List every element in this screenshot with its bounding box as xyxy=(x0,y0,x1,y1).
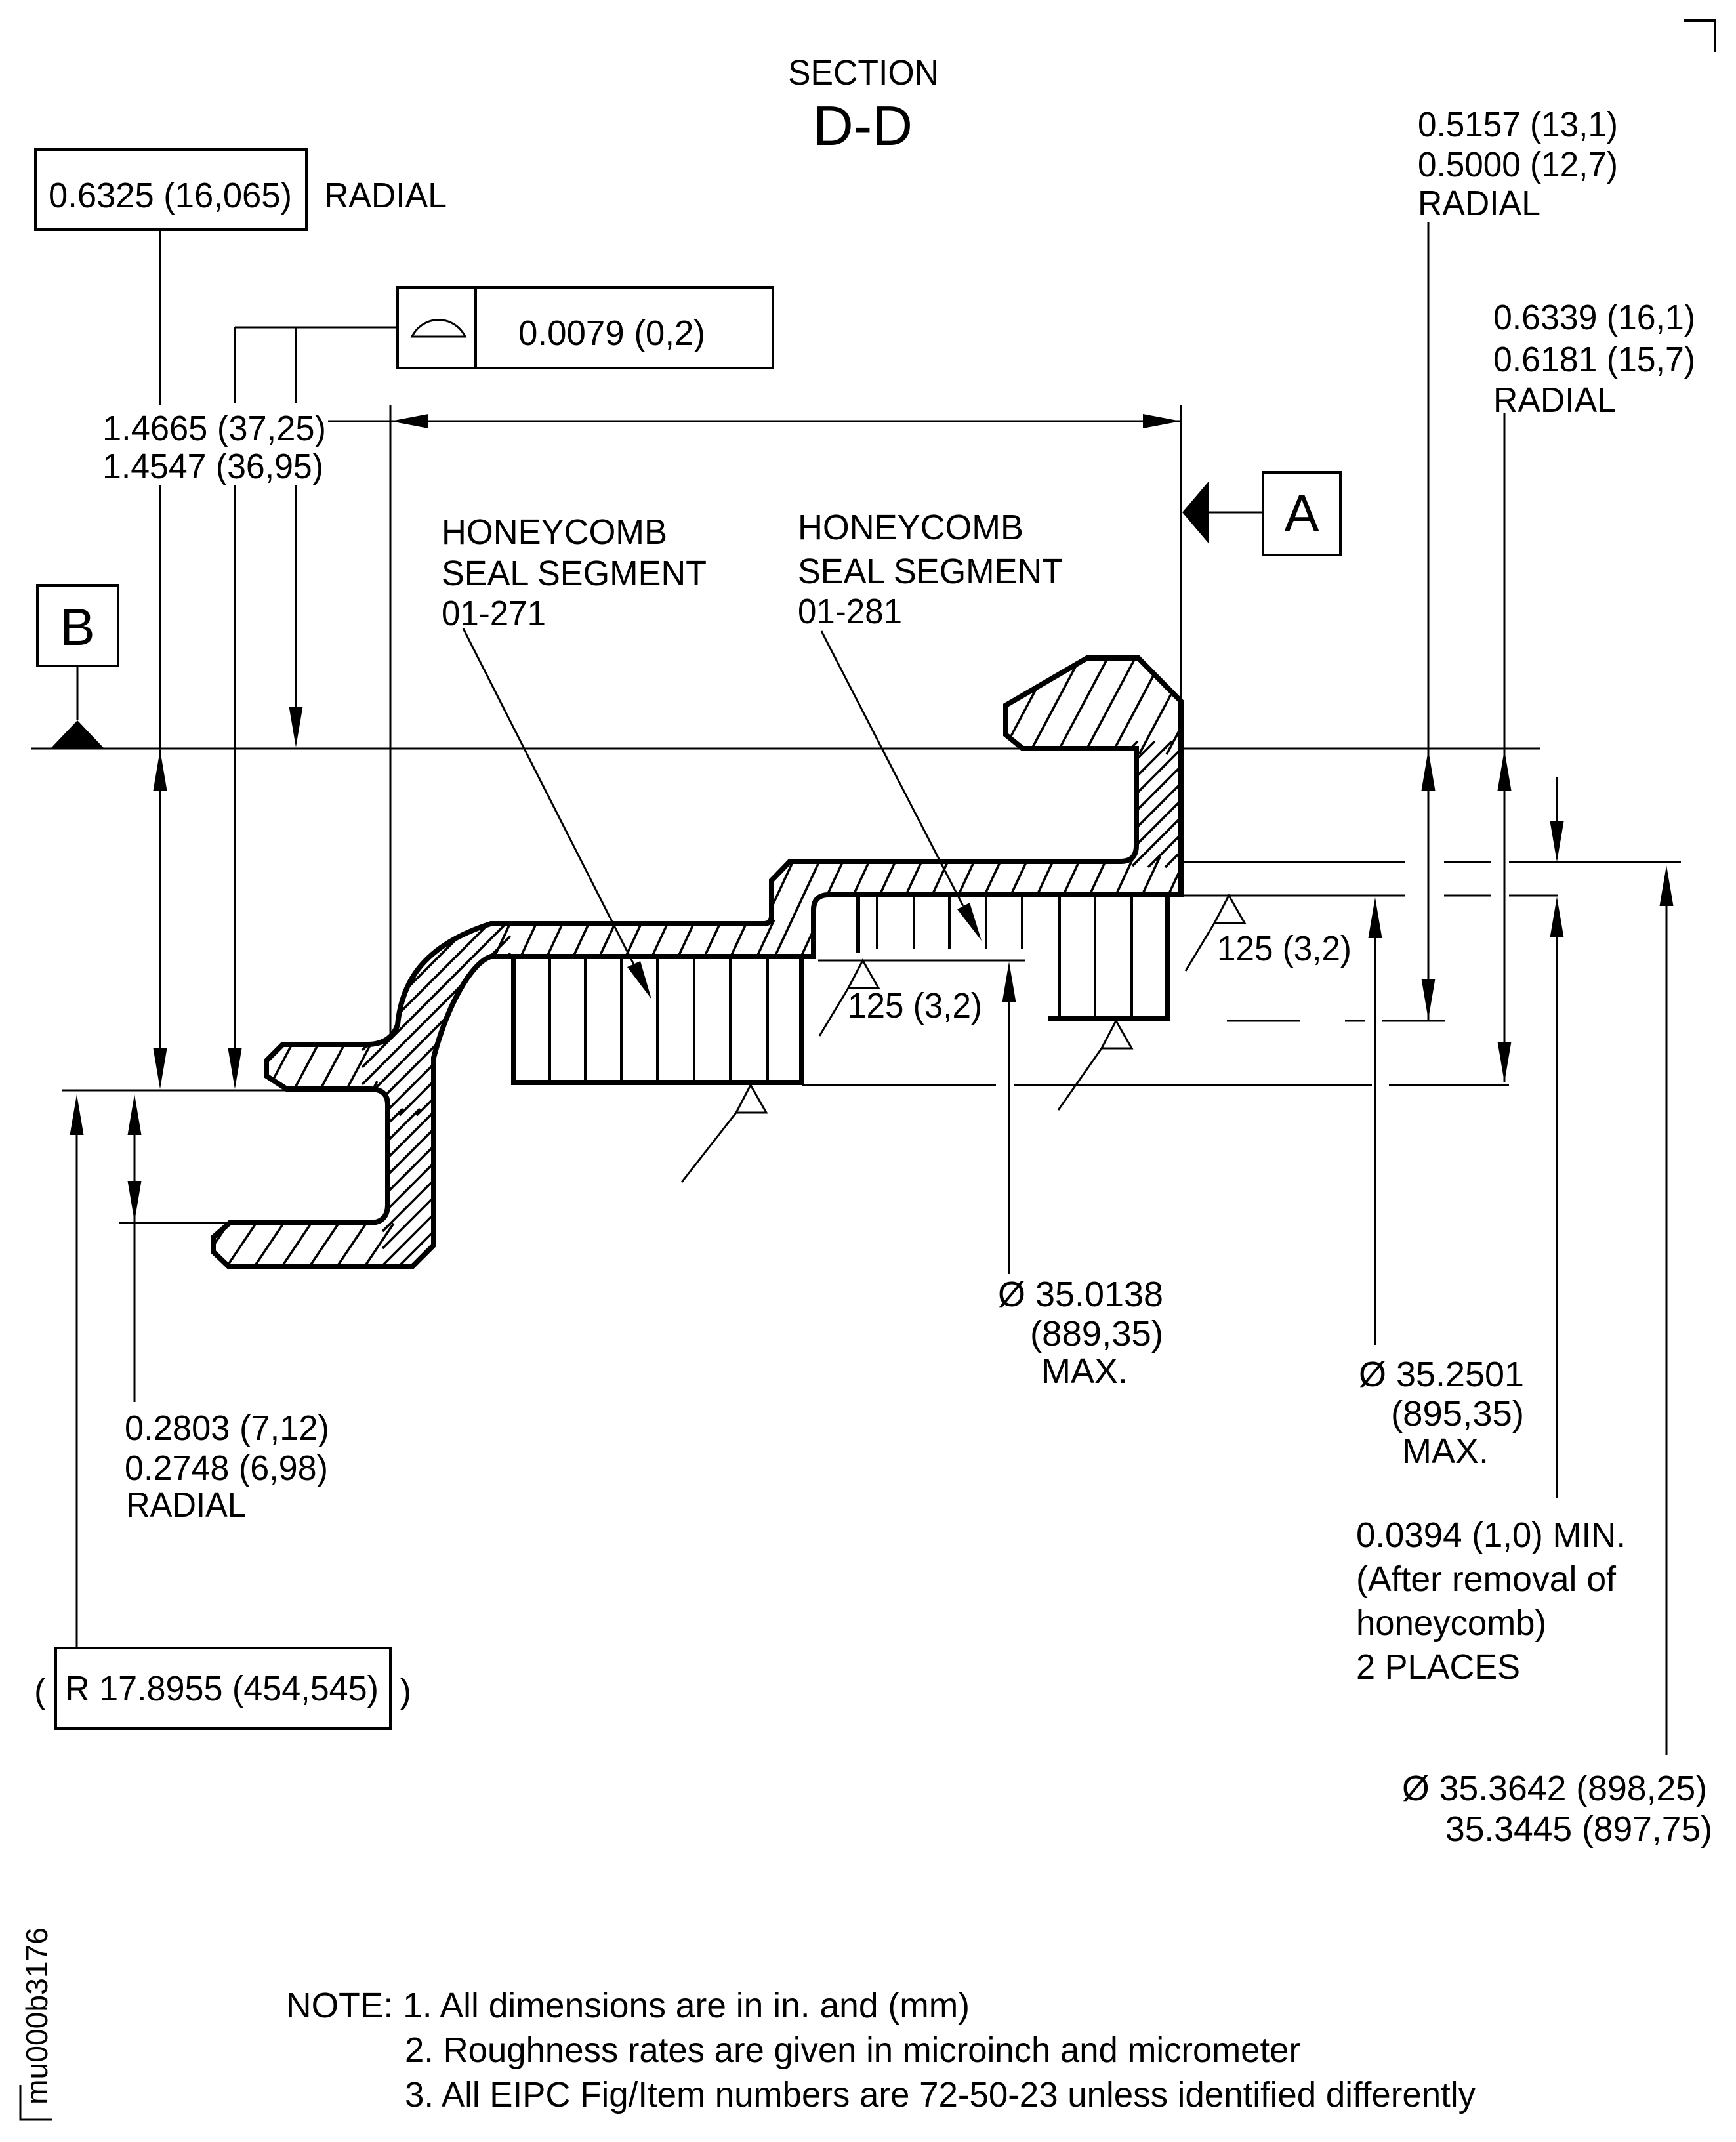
svg-text:0.2748 (6,98): 0.2748 (6,98) xyxy=(125,1449,328,1488)
svg-text:RADIAL: RADIAL xyxy=(1418,184,1540,223)
extension line: strip level-2 top surface xyxy=(1184,861,1405,863)
svg-text:Ø 35.3642 (898,25): Ø 35.3642 (898,25) xyxy=(1402,1769,1707,1808)
svg-text:Ø 35.0138: Ø 35.0138 xyxy=(998,1275,1163,1314)
feature control frame: profile 0.0079 (0,2) xyxy=(398,287,773,368)
svg-text:Ø 35.2501: Ø 35.2501 xyxy=(1359,1355,1524,1394)
dimension dia 35.2501 MAX xyxy=(1374,937,1376,1345)
svg-text:RADIAL: RADIAL xyxy=(324,176,447,215)
svg-text:1.4665 (37,25): 1.4665 (37,25) xyxy=(102,409,326,448)
honeycomb seal segment 01-281 shallow band xyxy=(818,896,1025,960)
svg-text:): ) xyxy=(400,1672,411,1711)
svg-text:0.6181 (15,7): 0.6181 (15,7) xyxy=(1493,340,1695,379)
extension line: part inner wall (left end of 1.4665 dim) xyxy=(390,405,392,1037)
extension line: part right edge (right end of 1.4665 dim) xyxy=(1180,405,1182,699)
roughness below honeycomb 01-271 xyxy=(736,1085,766,1113)
datum B symbol xyxy=(37,585,118,666)
svg-text:01-281: 01-281 xyxy=(798,592,902,631)
datum A symbol xyxy=(1263,472,1340,555)
svg-text:(: ( xyxy=(34,1672,46,1711)
leader 01-271 xyxy=(463,628,634,964)
corner trim mark top-right xyxy=(1684,20,1715,52)
svg-text:0.0079 (0,2): 0.0079 (0,2) xyxy=(518,314,705,353)
honeycomb seal segment 01-271 block xyxy=(511,957,804,1085)
extension line: deep honeycomb bottom surface xyxy=(1227,1020,1300,1022)
svg-text:(889,35): (889,35) xyxy=(1030,1314,1163,1353)
roughness 125 (3,2) on level-2 bottom extension xyxy=(1214,896,1245,923)
honeycomb seal segment 01-281 deep block xyxy=(1048,896,1170,1018)
svg-text:HONEYCOMB: HONEYCOMB xyxy=(442,512,667,552)
svg-text:NOTE: 1. All dimensions are in: NOTE: 1. All dimensions are in in. and (… xyxy=(286,1986,970,2025)
svg-text:RADIAL: RADIAL xyxy=(1493,381,1616,420)
svg-text:RADIAL: RADIAL xyxy=(126,1485,246,1525)
dimension 0.6325 RADIAL boxed xyxy=(35,150,306,230)
dimension 1.4665/1.4547 width line xyxy=(390,421,1181,422)
FCF leader xyxy=(235,327,398,329)
svg-text:SEAL SEGMENT: SEAL SEGMENT xyxy=(798,552,1063,591)
svg-text:MAX.: MAX. xyxy=(1041,1351,1128,1391)
svg-text:HONEYCOMB: HONEYCOMB xyxy=(798,508,1023,547)
leader 01-281 xyxy=(821,631,963,906)
svg-text:SECTION: SECTION xyxy=(788,53,939,93)
dimension R 17.8955 boxed reference xyxy=(76,1134,78,1648)
svg-text:0.0394 (1,0) MIN.: 0.0394 (1,0) MIN. xyxy=(1356,1515,1626,1555)
svg-text:B: B xyxy=(60,598,94,656)
svg-text:01-271: 01-271 xyxy=(442,594,546,633)
svg-text:(After removal of: (After removal of xyxy=(1356,1559,1617,1599)
svg-text:honeycomb): honeycomb) xyxy=(1356,1603,1546,1643)
svg-text:0.2803 (7,12): 0.2803 (7,12) xyxy=(125,1409,329,1448)
extension line: pocket floor surface xyxy=(119,1222,228,1224)
svg-text:1.4547 (36,95): 1.4547 (36,95) xyxy=(102,447,323,486)
svg-text:2 PLACES: 2 PLACES xyxy=(1356,1647,1520,1687)
svg-text:(895,35): (895,35) xyxy=(1391,1394,1524,1433)
extension line: honeycomb 01-271 bottom surface xyxy=(802,1084,996,1086)
svg-text:A: A xyxy=(1284,484,1319,543)
dimension dia 35.3642/35.3445 xyxy=(1666,905,1668,1755)
svg-text:0.6325 (16,065): 0.6325 (16,065) xyxy=(49,176,292,215)
dimension 0.2803/0.2748 RADIAL xyxy=(134,1134,136,1402)
seal carrier cross-section (hatched) xyxy=(213,658,1181,1266)
svg-text:0.5157 (13,1): 0.5157 (13,1) xyxy=(1418,105,1618,144)
svg-text:mu000b3176: mu000b3176 xyxy=(20,1927,54,2105)
extension line: strip level-2 bottom surface xyxy=(1184,895,1405,897)
dimension dia 35.0138 MAX xyxy=(1008,1002,1010,1274)
dimension 0.0394 MIN wall thickness xyxy=(1556,777,1558,821)
svg-text:D-D: D-D xyxy=(813,95,913,157)
svg-text:0.5000 (12,7): 0.5000 (12,7) xyxy=(1418,145,1618,184)
roughness 125 (3,2) on honeycomb 01-281 shallow bottom xyxy=(848,960,878,988)
svg-text:125 (3,2): 125 (3,2) xyxy=(1217,929,1352,968)
svg-text:35.3445 (897,75): 35.3445 (897,75) xyxy=(1445,1809,1712,1849)
svg-text:SEAL SEGMENT: SEAL SEGMENT xyxy=(442,554,707,593)
svg-text:125 (3,2): 125 (3,2) xyxy=(848,986,982,1025)
svg-text:MAX.: MAX. xyxy=(1402,1431,1489,1471)
svg-text:3. All EIPC Fig/Item numbers a: 3. All EIPC Fig/Item numbers are 72-50-2… xyxy=(405,2075,1476,2114)
extension line: flange bottom surface xyxy=(62,1090,287,1092)
svg-text:R 17.8955 (454,545): R 17.8955 (454,545) xyxy=(65,1669,379,1708)
roughness below deep honeycomb xyxy=(1102,1021,1132,1048)
svg-text:2. Roughness rates are given i: 2. Roughness rates are given in microinc… xyxy=(405,2030,1300,2070)
wire: datum B surface line xyxy=(31,748,1540,750)
svg-text:0.6339 (16,1): 0.6339 (16,1) xyxy=(1493,298,1695,337)
